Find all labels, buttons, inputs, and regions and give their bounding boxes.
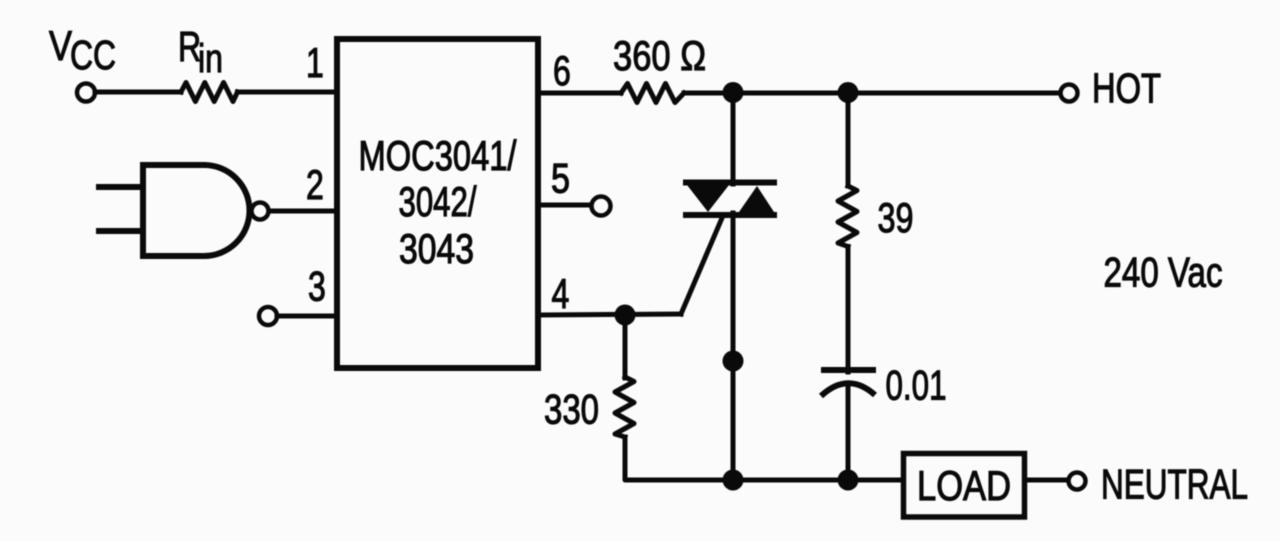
- resistor R1 Rin label: [178, 23, 223, 81]
- resistor R2 360 ohm: [621, 84, 684, 103]
- svg-text:6: 6: [553, 47, 571, 94]
- NAND input wire a: [96, 184, 145, 190]
- svg-text:4: 4: [552, 270, 570, 317]
- svg-text:in: in: [198, 36, 223, 81]
- junction node top-right: [838, 82, 859, 103]
- pin 2 label: [306, 161, 324, 208]
- node Vcc label: [49, 22, 116, 78]
- junction node pin4: [615, 305, 636, 326]
- wire cap to bottom rail: [846, 386, 851, 480]
- svg-text:3042/: 3042/: [399, 178, 478, 225]
- wire snubber top: [846, 92, 851, 186]
- NAND gate U2: [143, 165, 250, 256]
- svg-text:NEUTRAL: NEUTRAL: [1101, 460, 1248, 507]
- capacitor C1 value label: [886, 361, 947, 408]
- svg-text:HOT: HOT: [1092, 64, 1161, 111]
- capacitor C1 0.01: [821, 370, 876, 396]
- svg-text:360 Ω: 360 Ω: [613, 32, 706, 79]
- junction node top-left: [723, 82, 744, 103]
- junction node bottom-right: [838, 470, 859, 491]
- wire Vcc to Rin: [95, 90, 181, 95]
- svg-text:MOC3041/: MOC3041/: [359, 132, 518, 179]
- wire triac anode top: [731, 92, 736, 184]
- junction node triac mid: [723, 351, 744, 372]
- svg-text:330: 330: [544, 385, 599, 432]
- terminal pin 5: [592, 197, 611, 216]
- terminal NEUTRAL: [1069, 473, 1086, 490]
- svg-text:CC: CC: [70, 32, 116, 78]
- wire pin 5: [541, 203, 592, 208]
- NAND input wire b: [96, 228, 145, 234]
- wire 330 to bottom rail: [625, 437, 903, 480]
- wire NAND to pin 2: [269, 209, 334, 214]
- wire 39 to cap: [846, 247, 851, 373]
- NAND output bubble: [252, 203, 269, 220]
- svg-text:39: 39: [878, 194, 914, 241]
- wire triac anode bottom: [731, 213, 736, 483]
- svg-text:0.01: 0.01: [886, 361, 947, 408]
- wire pin 3: [277, 314, 334, 319]
- terminal HOT: [1061, 85, 1078, 102]
- resistor R1 Rin: [181, 83, 238, 102]
- pin 5 label: [551, 154, 570, 201]
- wire Rin to pin 1: [238, 90, 335, 95]
- svg-text:LOAD: LOAD: [917, 462, 1011, 509]
- wire 360 ohm to HOT: [684, 91, 1060, 96]
- pin 4 label: [552, 270, 570, 317]
- pin 3 label: [308, 262, 326, 309]
- resistor R4 39: [838, 186, 857, 247]
- resistor R3 330 label: [544, 385, 599, 432]
- node NEUTRAL label: [1101, 460, 1248, 507]
- pin 1 label: [306, 39, 324, 86]
- LOAD box: [904, 454, 1025, 518]
- triac Q1: [683, 183, 777, 216]
- svg-text:240 Vac: 240 Vac: [1104, 248, 1223, 295]
- wire LOAD to NEUTRAL: [1026, 478, 1067, 483]
- terminal pin 3: [259, 307, 277, 325]
- pin 6 label: [553, 47, 571, 94]
- svg-text:1: 1: [306, 39, 324, 86]
- wire pin 6 to 360 ohm: [541, 91, 621, 96]
- wire pin4 node to 330: [623, 315, 628, 378]
- svg-text:5: 5: [551, 154, 570, 201]
- optocoupler U1 box MOC3041/3042/3043: [337, 39, 538, 368]
- node HOT label: [1092, 64, 1161, 111]
- resistor R3 330: [615, 377, 634, 437]
- net 240 Vac label: [1104, 248, 1223, 295]
- terminal Vcc: [77, 84, 95, 102]
- wire triac gate: [681, 218, 722, 314]
- resistor R2 360 ohm label: [613, 32, 706, 79]
- svg-text:V: V: [49, 22, 72, 69]
- svg-text:3: 3: [308, 262, 326, 309]
- resistor R4 39 label: [878, 194, 914, 241]
- junction node bottom-left: [723, 470, 744, 491]
- wire pin 4: [541, 314, 681, 315]
- svg-text:3043: 3043: [399, 225, 474, 272]
- svg-text:2: 2: [306, 161, 324, 208]
